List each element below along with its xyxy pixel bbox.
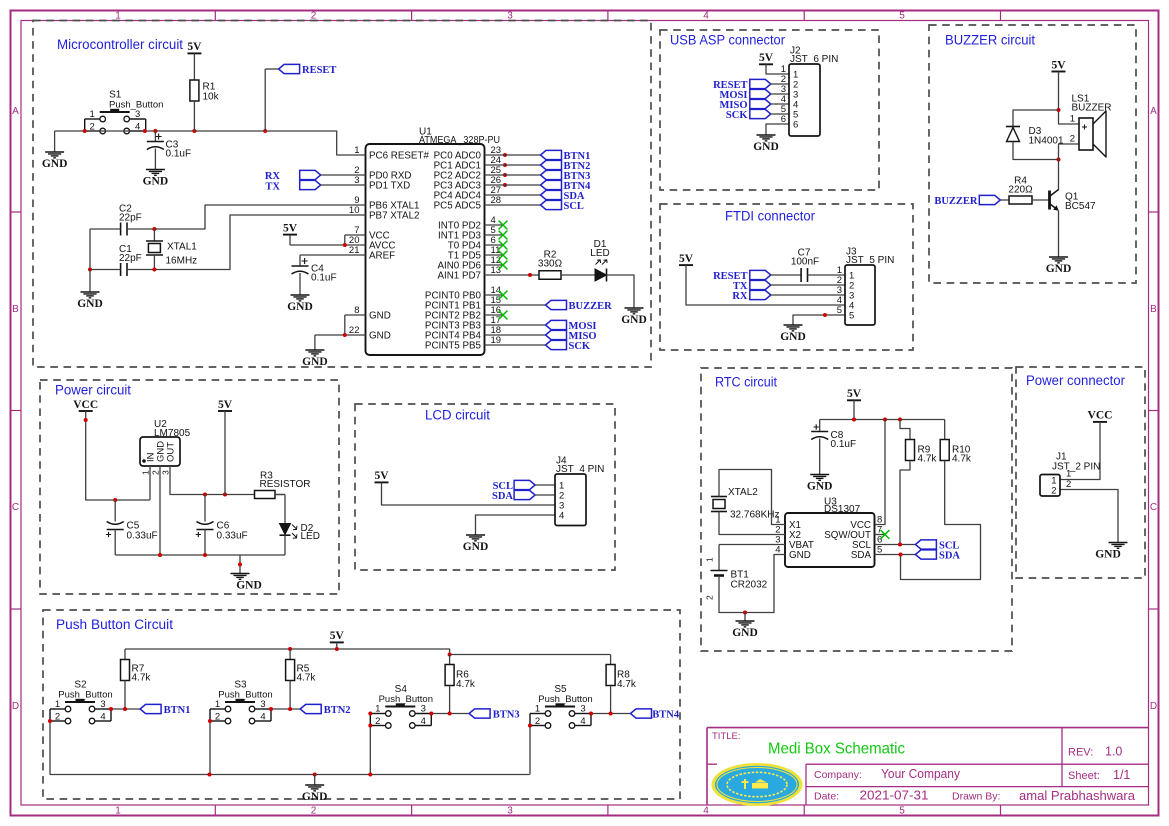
- wire J2 pin 6 to ground: [766, 124, 789, 135]
- svg-text:0.1uF: 0.1uF: [311, 273, 337, 284]
- junction dot AVCC: [343, 243, 347, 247]
- company logo: [712, 763, 803, 806]
- svg-text:1/1: 1/1: [1113, 768, 1130, 782]
- svg-text:D: D: [12, 701, 19, 712]
- resistor R3 RESISTOR: [255, 491, 276, 499]
- resistor R4 220 ohm: [1009, 196, 1032, 204]
- junction dot left of C1: [88, 268, 92, 272]
- wire BT1 bottom to U3 GND: [719, 555, 785, 613]
- junction dots S4 bracket: [368, 712, 372, 716]
- svg-text:RESET: RESET: [302, 65, 336, 76]
- ground GND after D1: [625, 308, 644, 314]
- svg-text:SCK: SCK: [569, 341, 591, 352]
- ground GND RTC: [736, 621, 755, 627]
- svg-text:3: 3: [135, 109, 140, 120]
- svg-text:DS1307: DS1307: [824, 504, 861, 515]
- wire J3 pin 5 to ground: [793, 315, 845, 325]
- wire R10 to SDA loop: [901, 461, 981, 580]
- capacitor C3 0.1uF: [154, 131, 156, 142]
- svg-text:GND: GND: [1046, 263, 1072, 275]
- junction dot top buzzer rail: [1057, 108, 1061, 112]
- svg-text:2: 2: [1051, 486, 1056, 497]
- svg-text:Push_Button: Push_Button: [218, 690, 272, 701]
- svg-text:4.7k: 4.7k: [617, 679, 637, 690]
- buzzer LS1 speaker symbol: [1079, 118, 1093, 150]
- wire VCC down to IN rail: [86, 411, 150, 500]
- LED D2: [280, 524, 291, 535]
- svg-text:Medi Box Schematic: Medi Box Schematic: [768, 741, 905, 758]
- Power connector section box: [1016, 367, 1145, 578]
- svg-text:PD1 TXD: PD1 TXD: [369, 180, 410, 191]
- FTDI connector section box: [660, 204, 913, 350]
- junction dots RTC rail: [852, 418, 856, 422]
- junction dot pin 13: [528, 273, 532, 277]
- svg-text:13: 13: [491, 265, 502, 276]
- hierarchical label MISO: [485, 334, 546, 336]
- svg-text:REV:: REV:: [1068, 747, 1093, 759]
- wire U2 OUT pin to 5V rail: [170, 466, 285, 495]
- wire J4 pin 4 to ground: [476, 515, 556, 535]
- hierarchical label BTN1: [541, 150, 562, 159]
- resistor R9 4.7k: [900, 420, 910, 440]
- hierarchical label SCL: [541, 200, 562, 209]
- resistor R6 4.7k: [449, 655, 451, 665]
- svg-text:28: 28: [491, 195, 502, 206]
- push button S2: [50, 680, 113, 724]
- hierarchical label RESET: [264, 69, 266, 131]
- svg-text:22pF: 22pF: [119, 213, 142, 224]
- connector J1 JST_2 PIN body: [1040, 475, 1060, 497]
- svg-text:ATMEGA _328P-PU: ATMEGA _328P-PU: [419, 135, 500, 146]
- ground GND below C4: [291, 295, 310, 301]
- svg-text:GND: GND: [287, 301, 313, 313]
- svg-text:GND: GND: [621, 314, 647, 326]
- wire C2 right to XTAL1 top junction: [127, 228, 154, 230]
- svg-text:CR2032: CR2032: [731, 580, 768, 591]
- junction dots BTN3 net: [429, 712, 433, 716]
- svg-text:1: 1: [115, 805, 121, 816]
- svg-text:4.7k: 4.7k: [918, 454, 938, 465]
- svg-text:FTDI connector: FTDI connector: [725, 209, 815, 224]
- junction dot VCC stem: [84, 418, 88, 422]
- wire R3 to LED D2: [275, 494, 285, 496]
- wire U2 GND pin to bottom rail: [159, 466, 161, 555]
- svg-text:JST_4 PIN: JST_4 PIN: [556, 464, 604, 475]
- wire U3 SCL pin to label: [875, 544, 916, 546]
- svg-text:TITLE:: TITLE:: [712, 731, 741, 742]
- svg-text:SDA: SDA: [492, 491, 513, 502]
- svg-text:BUZZER circuit: BUZZER circuit: [945, 33, 1035, 48]
- wire AREF to C4: [300, 254, 366, 256]
- transistor Q1 BC547 NPN: [1048, 191, 1051, 210]
- wire C7 to J3 pin 1: [808, 274, 846, 276]
- ground GND below J3: [784, 325, 803, 331]
- wire R9 to SCL: [900, 461, 910, 545]
- push button ground rail: [50, 774, 530, 776]
- U1 right pin names and numbers: [425, 145, 501, 352]
- svg-text:4.7k: 4.7k: [132, 673, 152, 684]
- svg-text:1: 1: [354, 145, 359, 156]
- ground GND push buttons: [305, 785, 324, 791]
- svg-text:0.1uF: 0.1uF: [166, 149, 192, 160]
- svg-text:2: 2: [215, 711, 220, 722]
- svg-text:A: A: [12, 106, 19, 117]
- hierarchical label SCK: [485, 344, 546, 346]
- wire XTAL1 top to U1 PB6: [154, 205, 365, 229]
- wire RESET to C7: [771, 274, 801, 276]
- wire U1 GND pin 8 to pin 22: [345, 314, 366, 316]
- wire D3 bottom to collector rail: [1013, 142, 1059, 160]
- svg-text:330Ω: 330Ω: [538, 259, 563, 270]
- junction dots BTN2 net: [269, 707, 273, 711]
- IC U3 DS1307 body: [785, 513, 875, 567]
- svg-text:BTN1: BTN1: [164, 705, 191, 716]
- svg-text:Power circuit: Power circuit: [55, 383, 131, 398]
- svg-text:5V: 5V: [1051, 59, 1066, 71]
- svg-text:1: 1: [1066, 469, 1071, 480]
- push button S1: [85, 90, 164, 134]
- wire XTAL1 bottom to U1 PB7: [154, 215, 365, 270]
- svg-text:5V: 5V: [847, 388, 862, 400]
- wire Q1 emitter to ground: [1058, 211, 1060, 258]
- wire S1 to ground: [54, 131, 56, 152]
- svg-text:5V: 5V: [187, 41, 202, 53]
- junction dots on reset rail: [83, 129, 87, 133]
- junction dot SDA: [899, 553, 903, 557]
- wire 5V to VCC/AVCC pins: [289, 235, 291, 245]
- svg-text:GND: GND: [369, 310, 391, 321]
- svg-text:8: 8: [354, 305, 359, 316]
- svg-text:5V: 5V: [759, 52, 774, 64]
- ground GND below crystal caps: [81, 292, 100, 298]
- wire VCC to J1 pin 1: [1060, 422, 1100, 480]
- svg-text:A: A: [1150, 106, 1157, 117]
- wire TX to U1 pin 3: [321, 184, 366, 186]
- crystal XTAL1 16MHz: [153, 229, 155, 241]
- junction dots BTN1 net: [109, 707, 113, 711]
- wire ground tap RTC: [744, 613, 746, 622]
- svg-text:XTAL1: XTAL1: [167, 242, 197, 253]
- svg-text:JST_6 PIN: JST_6 PIN: [790, 54, 838, 65]
- U1 no-connect pin stubs with X marks: [485, 221, 508, 320]
- svg-text:SCL: SCL: [564, 201, 584, 212]
- crystal XTAL2 32.768KHz: [711, 496, 727, 498]
- svg-text:GND: GND: [732, 627, 758, 639]
- svg-text:2: 2: [1070, 134, 1075, 145]
- svg-text:JST_5 PIN: JST_5 PIN: [846, 255, 894, 266]
- wire reset rail from S1 to U1 pin 1: [55, 131, 366, 155]
- U3 pin names and numbers: [775, 515, 882, 562]
- svg-text:1: 1: [55, 699, 60, 710]
- svg-text:PCINT5 PB5: PCINT5 PB5: [425, 340, 482, 351]
- svg-text:4: 4: [260, 711, 265, 722]
- junction dot SCL: [898, 543, 902, 547]
- svg-text:3: 3: [354, 175, 359, 186]
- svg-text:Push_Button: Push_Button: [538, 694, 592, 705]
- svg-text:BTN3: BTN3: [493, 709, 520, 720]
- push button S4: [370, 684, 433, 728]
- USB ASP connector section box: [660, 30, 879, 190]
- svg-text:Drawn By:: Drawn By:: [952, 790, 1000, 802]
- diode D3 1N4001: [1006, 126, 1020, 128]
- wire S3 ground drop: [209, 721, 211, 775]
- wire SDA to J4 pin 2: [535, 494, 555, 496]
- wire C2 left to vertical: [90, 228, 121, 230]
- wire S3 to BTN2 label: [271, 708, 300, 710]
- svg-text:5: 5: [837, 305, 842, 316]
- svg-text:21: 21: [349, 245, 360, 256]
- Push Button Circuit section box: [43, 610, 680, 799]
- svg-text:Push Button Circuit: Push Button Circuit: [56, 617, 173, 632]
- wire D2 to bottom rail: [284, 535, 286, 555]
- svg-text:10: 10: [349, 205, 360, 216]
- wire S4 ground drop: [369, 726, 371, 775]
- svg-text:4.7k: 4.7k: [456, 679, 476, 690]
- svg-text:B: B: [12, 304, 19, 315]
- resistor R5 4.7k: [289, 649, 291, 660]
- capacitor C6 0.33uF: [204, 495, 206, 522]
- wire S2 ground drop: [49, 721, 51, 775]
- hierarchical label BTN2: [300, 704, 321, 713]
- svg-text:GND: GND: [789, 550, 811, 561]
- hierarchical label BTN3: [541, 170, 562, 179]
- svg-text:GND: GND: [369, 330, 391, 341]
- svg-text:AIN1 PD7: AIN1 PD7: [437, 270, 481, 281]
- svg-text:220Ω: 220Ω: [1008, 185, 1033, 196]
- svg-text:OUT: OUT: [166, 442, 177, 462]
- wire C1 left: [90, 269, 121, 271]
- svg-text:LED: LED: [590, 248, 609, 259]
- wire ground tap: [239, 555, 241, 574]
- svg-text:1: 1: [1070, 114, 1075, 125]
- svg-text:Push_Button: Push_Button: [58, 690, 112, 701]
- junction dot GND pins: [343, 333, 347, 337]
- svg-text:10k: 10k: [203, 92, 220, 103]
- svg-text:6: 6: [781, 114, 786, 125]
- wire 5V stem to rail: [336, 642, 338, 649]
- title block: [707, 728, 1149, 805]
- wire BT1 top to U3 VBAT: [719, 544, 785, 546]
- svg-text:Push_Button: Push_Button: [379, 694, 433, 705]
- svg-text:GND: GND: [42, 158, 68, 170]
- RTC 5V rail: [820, 419, 945, 421]
- hierarchical label BTN4: [631, 709, 652, 718]
- RTC circuit section box: [701, 368, 1012, 651]
- svg-text:PC6 RESET#: PC6 RESET#: [369, 150, 429, 161]
- svg-text:4.7k: 4.7k: [297, 673, 317, 684]
- svg-text:4: 4: [559, 511, 564, 522]
- svg-text:4: 4: [100, 711, 105, 722]
- capacitor C7 100nF: [800, 268, 802, 282]
- U1 left pin names and numbers: [349, 145, 430, 342]
- ground GND below J4: [466, 535, 485, 541]
- capacitor C5 0.33uF: [114, 500, 116, 522]
- svg-text:2: 2: [535, 716, 540, 727]
- junction dots on 5V rail: [288, 647, 292, 651]
- svg-text:GND: GND: [236, 580, 262, 592]
- wire U2 IN pin: [149, 466, 151, 500]
- regulator U2 LM7805: [140, 437, 180, 466]
- svg-text:4: 4: [421, 716, 426, 727]
- svg-text:5V: 5V: [330, 630, 345, 642]
- junction dot XTAL1 top: [152, 227, 156, 231]
- wire XTAL2 top to U3 X1: [719, 470, 785, 525]
- svg-text:1: 1: [705, 557, 715, 562]
- wires U1 PC0-PC5 to button/I2C labels: [485, 155, 541, 205]
- svg-text:RX: RX: [732, 291, 748, 302]
- svg-text:BC547: BC547: [1065, 201, 1096, 212]
- junction dot XTAL1 bottom: [152, 268, 156, 272]
- svg-text:JST_2 PIN: JST_2 PIN: [1052, 462, 1100, 473]
- svg-text:C: C: [1150, 502, 1157, 513]
- connector J4 JST_4 PIN: [555, 456, 604, 526]
- svg-text:GND: GND: [77, 298, 103, 310]
- svg-text:1: 1: [375, 704, 380, 715]
- svg-text:SDA: SDA: [851, 550, 872, 561]
- svg-text:TX: TX: [265, 181, 280, 192]
- wire BUZZER label to R4: [1000, 199, 1009, 201]
- svg-text:3: 3: [260, 699, 265, 710]
- svg-text:VCC: VCC: [1088, 410, 1113, 422]
- junction dot BT1 ground: [743, 611, 747, 615]
- svg-text:Sheet:: Sheet:: [1068, 770, 1100, 782]
- wire S5 to BTN4 label: [591, 713, 631, 715]
- ground GND below C8: [810, 475, 829, 481]
- wire ground rail tap: [314, 775, 316, 786]
- power section bottom rail: [115, 554, 285, 556]
- svg-text:4: 4: [580, 716, 585, 727]
- svg-text:BUZZER: BUZZER: [1072, 103, 1112, 114]
- wire to crystal ground: [89, 270, 91, 293]
- svg-text:LM7805: LM7805: [154, 428, 191, 439]
- svg-text:BUZZER: BUZZER: [934, 196, 978, 207]
- svg-text:GND: GND: [463, 541, 489, 553]
- wire J1 pin 2 to ground: [1060, 490, 1118, 543]
- wire S2 to BTN1 label: [111, 708, 140, 710]
- svg-text:SCK: SCK: [726, 110, 748, 121]
- svg-text:RTC circuit: RTC circuit: [715, 375, 777, 390]
- resistor R1 10k: [193, 53, 195, 80]
- hierarchical label BTN4: [541, 180, 562, 189]
- hierarchical label SDA: [541, 190, 562, 199]
- wire RX to U1 pin 2: [321, 174, 366, 176]
- LED D1: [595, 269, 607, 281]
- svg-text:3: 3: [507, 805, 513, 816]
- wire SCL to J4 pin 1: [535, 484, 555, 486]
- svg-text:1: 1: [535, 704, 540, 715]
- svg-text:C: C: [12, 502, 19, 513]
- svg-text:4: 4: [703, 10, 709, 21]
- junction dots BTN4 net: [589, 712, 593, 716]
- capacitor C4 0.1uF: [292, 265, 309, 267]
- svg-text:GND: GND: [1095, 549, 1121, 561]
- svg-text:2021-07-31: 2021-07-31: [860, 788, 929, 802]
- svg-text:22pF: 22pF: [119, 253, 142, 264]
- junction dot S2 bracket: [48, 719, 52, 723]
- svg-text:GND: GND: [753, 141, 779, 153]
- junction dot ground tap: [238, 563, 242, 567]
- svg-text:1: 1: [215, 699, 220, 710]
- LCD circuit section box: [355, 404, 615, 570]
- connector J3 JST_5 PIN: [837, 247, 895, 326]
- junction dot collector rail: [1057, 158, 1061, 162]
- svg-text:100nF: 100nF: [791, 256, 819, 267]
- svg-text:2: 2: [705, 595, 715, 600]
- wire buzzer pin 2 down: [1059, 144, 1080, 190]
- junction dot on J3 pin 5 wire: [823, 313, 827, 317]
- wire RX to J3 pin 3: [771, 294, 845, 296]
- junction dot S3 bracket: [208, 719, 212, 723]
- wire XTAL2 bottom to U3 X2: [719, 512, 785, 535]
- hierarchical label BTN3: [469, 709, 490, 718]
- wire U1 GND pin 22 to ground: [315, 334, 366, 336]
- svg-text:GND: GND: [302, 791, 328, 803]
- svg-text:PB7 XTAL2: PB7 XTAL2: [369, 210, 419, 221]
- svg-text:0.33uF: 0.33uF: [127, 531, 158, 542]
- wire U3 SDA pin to label: [875, 554, 916, 556]
- wire VCC pin 8 to rail: [875, 420, 886, 525]
- wire left vertical C2-C1: [89, 229, 91, 270]
- svg-text:VCC: VCC: [73, 399, 98, 411]
- wire 5V to J4 pin 3: [382, 482, 556, 505]
- wire D1 to ground: [607, 275, 635, 308]
- svg-text:Date:: Date:: [814, 790, 839, 802]
- ground GND below S1: [45, 152, 64, 158]
- hierarchical label MOSI: [485, 324, 546, 326]
- wire 5V down to buzzer pin 1: [1059, 72, 1080, 125]
- svg-text:SDA: SDA: [939, 551, 960, 562]
- resistor R2 330 ohm: [539, 271, 561, 280]
- wire to diode D3 top: [1013, 110, 1059, 127]
- svg-text:16MHz: 16MHz: [166, 256, 198, 267]
- svg-text:BUZZER: BUZZER: [569, 301, 613, 312]
- svg-text:19: 19: [491, 335, 502, 346]
- svg-text:LCD circuit: LCD circuit: [425, 408, 490, 423]
- BUZZER circuit section box: [929, 25, 1136, 283]
- svg-text:6: 6: [793, 120, 798, 131]
- ground GND below J1: [1109, 543, 1128, 549]
- wire 5V symbol down: [224, 411, 226, 495]
- svg-text:BTN4: BTN4: [652, 709, 680, 720]
- svg-text:3: 3: [421, 704, 426, 715]
- svg-text:2: 2: [55, 711, 60, 722]
- connector J2 JST_6 PIN: [781, 46, 839, 137]
- battery BT1 CR2032: [718, 545, 720, 571]
- svg-text:Push_Button: Push_Button: [109, 100, 163, 111]
- svg-text:Microcontroller circuit: Microcontroller circuit: [57, 37, 183, 52]
- wire S5 ground drop: [529, 726, 531, 775]
- svg-text:1.0: 1.0: [1105, 745, 1122, 759]
- svg-text:RESISTOR: RESISTOR: [260, 479, 311, 490]
- resistor R7 4.7k: [124, 649, 126, 660]
- U3 no-connect pin 7: [875, 534, 886, 536]
- hierarchical label SCL RTC: [915, 540, 936, 549]
- svg-text:PC5 ADC5: PC5 ADC5: [434, 200, 482, 211]
- resistor R8 4.7k: [610, 655, 612, 665]
- svg-text:GND: GND: [302, 356, 328, 368]
- svg-text:4.7k: 4.7k: [952, 454, 972, 465]
- wire S4 to BTN3 label: [431, 713, 469, 715]
- svg-text:5: 5: [849, 311, 854, 322]
- svg-text:22: 22: [349, 325, 360, 336]
- svg-text:5V: 5V: [218, 399, 233, 411]
- svg-text:0.1uF: 0.1uF: [831, 439, 857, 450]
- svg-text:LED: LED: [301, 531, 320, 542]
- junction dots ground rail: [208, 773, 212, 777]
- push button S3: [210, 680, 273, 724]
- wire R2 to LED D1: [561, 274, 595, 276]
- wire 5V to J3 pin 4: [686, 265, 845, 305]
